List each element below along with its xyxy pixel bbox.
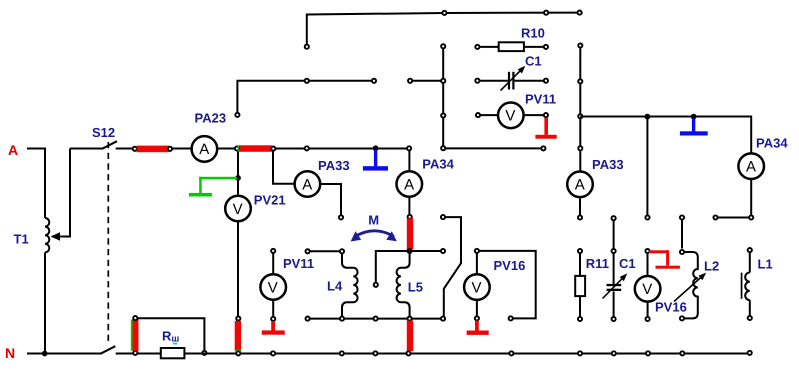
jumper red bar (L5 to N bus) — [407, 321, 413, 351]
svg-text:R10: R10 — [521, 26, 545, 41]
voltmeter PV16 (left) top ring — [475, 249, 479, 253]
svg-text:A: A — [746, 159, 756, 176]
terminal ring — [578, 215, 582, 219]
svg-text:L4: L4 — [327, 279, 343, 294]
switch S12 bottom blade — [100, 346, 115, 354]
svg-text:PV21: PV21 — [254, 192, 286, 207]
terminal ring — [339, 215, 343, 219]
transformer T1 (autotransformer coil) — [45, 218, 49, 252]
svg-text:V: V — [505, 108, 515, 125]
wire second row right segment — [413, 80, 444, 82]
svg-text:V: V — [642, 281, 652, 298]
terminal ring — [133, 316, 137, 320]
terminal ring — [236, 316, 240, 320]
terminal ring — [612, 351, 616, 355]
right horizontal feeder wire — [580, 117, 751, 153]
T1 wiper arrowhead — [51, 232, 61, 241]
inductor L1 core bar — [741, 273, 743, 299]
switch S12 gang dashed link — [107, 142, 109, 345]
wire PA33 output — [321, 184, 341, 215]
inductor L4 — [342, 254, 358, 319]
terminal ring — [544, 113, 548, 117]
wire PA34 bottom — [718, 180, 751, 218]
terminal ring — [408, 79, 412, 83]
svg-text:V: V — [472, 279, 482, 296]
svg-text:PA33: PA33 — [318, 158, 350, 173]
node (blue probe junction) — [373, 145, 379, 151]
wire PV16 top stub — [476, 253, 478, 273]
blue probe symbol (right) — [692, 118, 695, 133]
terminal ring PA34 corner — [749, 215, 753, 219]
terminal ring — [373, 351, 377, 355]
terminal ring bar2 right — [271, 147, 275, 151]
jumper red bar (after PA23) — [239, 145, 272, 152]
terminal ring — [646, 351, 650, 355]
wire R sh bypass loop — [138, 318, 205, 350]
capacitor C1 (right) — [612, 216, 616, 220]
svg-text:PV16: PV16 — [655, 299, 687, 314]
wire column to mid terminal — [446, 147, 541, 149]
terminal ring — [407, 146, 411, 150]
terminal ring — [578, 79, 582, 83]
inductor L2 variable arrow — [674, 276, 703, 302]
terminal ring — [271, 317, 275, 321]
svg-text:V: V — [233, 201, 243, 218]
terminal ring — [475, 316, 479, 320]
wire S12 top right contact — [116, 148, 133, 150]
wire PA33-left branch — [273, 149, 294, 184]
resistor R10 body — [499, 42, 524, 51]
terminal ring — [441, 113, 445, 117]
resistor R sh body — [161, 348, 185, 358]
inductor L5 — [397, 251, 410, 319]
wire PV11 top stub — [272, 253, 274, 273]
voltmeter PV21 — [225, 196, 251, 222]
svg-text:L5: L5 — [408, 280, 423, 295]
jumper red bar (A line) — [137, 146, 170, 153]
terminal ring — [441, 146, 445, 150]
node (blue probe junction right) — [691, 114, 697, 120]
terminal ring — [541, 146, 545, 150]
svg-text:T1: T1 — [14, 232, 29, 247]
terminal ring — [441, 215, 445, 219]
svg-text:L2: L2 — [704, 259, 719, 274]
svg-text:A: A — [302, 176, 312, 193]
wire wiper to switch S12 — [70, 148, 103, 150]
terminal ring — [441, 317, 445, 321]
wire PV11 bottom stub — [272, 301, 274, 317]
T1 wiper arm wire — [58, 149, 70, 237]
svg-text:L1: L1 — [758, 256, 773, 271]
terminal ring — [408, 215, 412, 219]
zigzag patch wire (top right of L5) — [444, 217, 461, 316]
wire main bus to PA33 branch corner — [272, 148, 409, 150]
terminal ring — [578, 146, 582, 150]
node (green probe junction) — [235, 175, 241, 181]
capacitor C1 (top) leads — [480, 80, 508, 82]
terminal ring — [544, 45, 548, 49]
vertical patch column wire — [442, 49, 444, 146]
N bus wire center — [184, 353, 749, 355]
resistor R11 — [578, 249, 582, 253]
wire PV16 feeder stub — [646, 118, 648, 215]
wire PA33 bottom stub — [579, 198, 581, 215]
svg-text:PV11: PV11 — [525, 91, 556, 106]
wire L5 node right arm — [410, 250, 441, 252]
terminal ring — [374, 317, 378, 321]
wire PV16 loop — [479, 251, 535, 319]
terminal ring (feeder junction) — [578, 114, 582, 118]
terminal ring — [475, 45, 479, 49]
terminal ring bar2 left — [235, 146, 239, 150]
node T1 bottom junction — [42, 351, 48, 357]
green probe symbol — [199, 177, 237, 180]
svg-text:A: A — [404, 176, 414, 193]
red earth probe below PV16 — [475, 321, 479, 331]
second distribution wire — [237, 81, 374, 113]
terminal ring — [168, 147, 172, 151]
terminal ring — [236, 351, 240, 355]
voltmeter PV11 (left) — [260, 274, 286, 300]
N bus wire left — [27, 353, 101, 355]
terminal ring — [235, 113, 239, 117]
capacitor C1 variable arrow — [603, 276, 625, 298]
ammeter PA34 (left) feed — [408, 151, 410, 171]
ammeter PA23 — [192, 136, 218, 162]
voltmeter PV11 (left) top ring — [271, 249, 275, 253]
jumper red bar (PV21 to N bus) — [235, 321, 241, 351]
terminal ring — [133, 351, 137, 355]
terminal ring — [305, 146, 309, 150]
terminal ring — [202, 351, 206, 355]
wire T1 bottom to N bus — [44, 252, 46, 353]
wire S12 bottom contact — [116, 353, 133, 355]
svg-text:PA23: PA23 — [195, 111, 227, 126]
N bus wire to R sh box — [138, 353, 161, 355]
node column junction — [441, 79, 445, 83]
terminal ring — [306, 317, 310, 321]
terminal ring — [578, 351, 582, 355]
wire PV16 bottom stub — [476, 301, 478, 316]
terminal ring — [680, 351, 684, 355]
capacitor C1 plates — [508, 72, 510, 90]
node — [645, 114, 651, 120]
terminal ring — [305, 45, 309, 49]
svg-text:PV11: PV11 — [283, 256, 314, 271]
inductor L2 — [680, 215, 684, 219]
mutual coupling arc arrow — [355, 231, 395, 237]
terminal ring — [133, 147, 137, 151]
svg-text:PV16: PV16 — [494, 258, 526, 273]
ammeter PA33 (left) — [295, 171, 321, 197]
voltmeter PV16 (right) — [645, 249, 649, 253]
wire L4 top — [310, 250, 340, 252]
terminal ring — [476, 113, 480, 117]
blue probe symbol — [374, 150, 377, 166]
svg-text:PA34: PA34 — [756, 136, 788, 151]
voltmeter PV16 (left) — [464, 274, 490, 300]
terminal ring — [544, 79, 548, 83]
terminal ring — [442, 11, 446, 15]
wire PV21 column top — [237, 149, 239, 195]
red earth probe below PV11 — [271, 321, 275, 332]
svg-text:S12: S12 — [92, 125, 115, 140]
terminal ring — [374, 283, 378, 287]
red earth probe below PV11 top — [544, 118, 548, 135]
node L5 top junction — [408, 249, 412, 253]
svg-text:C1: C1 — [525, 54, 542, 69]
terminal ring — [713, 215, 717, 219]
wire PA23 to node — [218, 148, 237, 150]
red earth probe wire (PV16 right) — [649, 250, 669, 253]
ammeter PA34 (right) — [738, 153, 764, 179]
terminal ring — [441, 249, 445, 253]
svg-text:A: A — [8, 142, 18, 158]
svg-text:PA33: PA33 — [592, 157, 624, 172]
terminal ring (bus end) — [748, 351, 752, 355]
terminal ring — [578, 43, 582, 47]
svg-text:PA34: PA34 — [422, 156, 454, 171]
voltmeter PV11 (top) — [498, 103, 524, 129]
voltmeter PV11 (top) leads — [480, 114, 497, 116]
terminal ring — [340, 351, 344, 355]
svg-text:C1: C1 — [619, 256, 636, 271]
inductor L4 top terminal ring — [306, 249, 310, 253]
terminal ring L4 top corner — [340, 249, 344, 253]
terminal ring — [271, 351, 275, 355]
terminal ring — [645, 215, 649, 219]
ammeter PA34 (left) — [397, 171, 423, 197]
wire A lead-in — [27, 149, 45, 219]
top distribution wire — [307, 13, 580, 47]
jumper red bar (R sh) — [133, 319, 139, 351]
switch S12 top blade — [102, 141, 117, 149]
svg-text:A: A — [575, 177, 585, 194]
capacitor C1 variable arrow — [501, 69, 523, 91]
terminal ring — [441, 44, 445, 48]
wire to ammeter PA23 — [172, 148, 191, 150]
node L5 bottom junction — [408, 317, 412, 321]
inductor L1 — [748, 248, 752, 252]
terminal ring — [475, 79, 479, 83]
svg-text:R11: R11 — [586, 256, 609, 271]
terminal ring — [372, 79, 376, 83]
right feeder column wire — [579, 48, 581, 171]
jumper red bar (PA34 to L5 node) — [407, 218, 413, 249]
terminal ring L4 bottom — [340, 317, 344, 321]
terminal ring — [305, 79, 309, 83]
wire L4/L5 bottom rail — [310, 318, 440, 320]
terminal ring — [544, 11, 548, 15]
resistor R10 leads — [480, 46, 499, 48]
wire L5 node left arm — [376, 251, 410, 282]
svg-text:A: A — [199, 141, 209, 158]
svg-text:V: V — [268, 279, 278, 296]
wire PA34 bottom stub — [408, 198, 410, 216]
terminal ring — [509, 351, 513, 355]
svg-text:M: M — [368, 213, 379, 228]
ammeter PA33 (right) — [567, 172, 593, 198]
wire PV21 bottom — [237, 222, 239, 316]
terminal ring — [578, 11, 582, 15]
svg-text:N: N — [5, 345, 15, 361]
terminal ring — [406, 351, 410, 355]
terminal ring — [509, 316, 513, 320]
